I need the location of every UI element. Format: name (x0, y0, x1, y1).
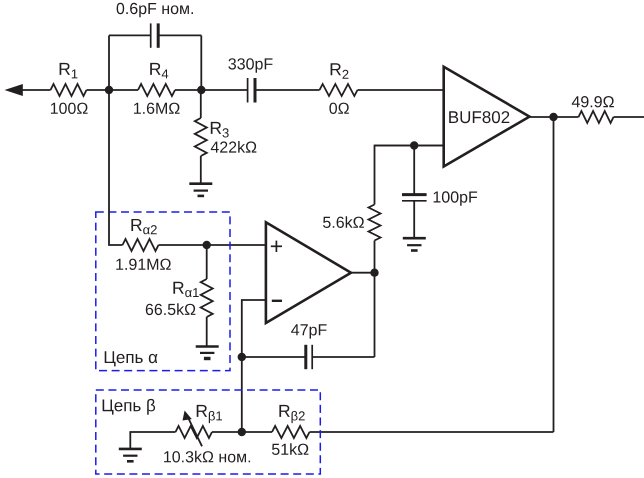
label Цепь α (105, 351, 158, 366)
resistor 49.9Ω (579, 111, 614, 123)
wire 5.6k riser (375, 146, 444, 205)
resistor 5.6kΩ (369, 205, 381, 241)
node G (alpha tap) (203, 241, 211, 249)
label R2 (331, 63, 349, 79)
wire Rα1 to ground (206, 317, 208, 347)
potentiometer Rβ1 (176, 411, 212, 447)
buffer U1 BUF802 (444, 67, 530, 167)
value 100Ω (51, 103, 88, 114)
value 51kΩ (272, 443, 308, 455)
capacitor 330pF (248, 78, 255, 103)
resistor R2 (320, 84, 358, 96)
wire -input to feedback column (242, 300, 266, 432)
wire op-amp output (351, 272, 375, 274)
wire 0.6pF branch left riser (108, 35, 110, 90)
wire feedback bottom (310, 431, 554, 433)
wire node B to R3 (200, 90, 202, 118)
value 10.3kΩ ном. (164, 451, 250, 463)
value 1.91MΩ (116, 259, 171, 270)
wire node G to Rα1 (206, 245, 208, 279)
capacitor 100pF (402, 195, 427, 201)
wire 330pF to R2 (255, 89, 320, 91)
resistor Rβ2 (272, 426, 310, 438)
capacitor 47pF (306, 345, 312, 369)
label 47pF (291, 324, 327, 338)
wire BUF802 output (530, 116, 579, 118)
value 66.5kΩ (146, 303, 196, 315)
wire 0.6pF branch top right (158, 34, 201, 36)
label Rα1 (173, 282, 198, 297)
value 422kΩ (211, 141, 257, 153)
value 5.6kΩ (323, 216, 364, 228)
wire 49.9Ω to edge (614, 116, 644, 118)
label Цепь β (103, 399, 156, 415)
wire feedback vertical (553, 117, 555, 432)
ground (100pF) (403, 238, 426, 250)
label BUF802 (449, 111, 509, 123)
wire 100pF to ground (413, 201, 415, 238)
wire Rα2 to node G (159, 244, 207, 246)
label R1 (60, 63, 78, 79)
wire Rβ1 to node H (212, 431, 242, 433)
wire beta ground corner (130, 432, 175, 449)
wire node F to 47pF (242, 356, 306, 358)
label Rβ1 (197, 405, 222, 423)
label R3 (211, 122, 229, 138)
node H (beta tap) (238, 428, 246, 436)
wire node E to 47pF (374, 273, 376, 357)
ground (Rα1) (196, 347, 219, 359)
resistor R1 (51, 84, 87, 96)
value 49.9Ω (572, 96, 614, 107)
pin − (inverting) (272, 300, 282, 302)
wire node A to R4 (109, 89, 138, 91)
wire 100pF stub (413, 146, 415, 195)
op-amp U2 (266, 222, 351, 323)
node F (47pF tap) (238, 353, 246, 361)
wire R4 to node B (175, 89, 201, 91)
dashed box Цепь α (96, 212, 230, 371)
label 330pF (228, 58, 272, 72)
value 1.6MΩ (134, 103, 180, 114)
arrow (signal to left) (5, 84, 51, 96)
node A (105, 86, 113, 94)
label Rβ2 (279, 405, 304, 423)
wire aux input rail (375, 145, 444, 147)
label Rα2 (131, 219, 156, 234)
wire R1 to node A (87, 89, 110, 91)
wire 47pF to node E column (312, 356, 374, 358)
ground (R3) (189, 184, 212, 196)
wire R2 to BUF802 (358, 89, 444, 91)
node C (output) (549, 113, 557, 121)
resistor R3 (195, 118, 207, 156)
pin + (non-inverting) (271, 241, 282, 252)
label R4 (150, 63, 168, 79)
label 0.6pF ном. (117, 3, 193, 17)
capacitor 0.6pF (151, 23, 159, 47)
wire 0.6pF branch right riser (200, 35, 202, 90)
resistor Rα2 (123, 239, 159, 251)
wire R3 to ground (200, 156, 202, 184)
label 100pF (434, 191, 478, 206)
wire +input rail (207, 244, 266, 246)
wire 5.6k to node E (374, 241, 376, 273)
wire node A to alpha network (109, 90, 123, 245)
wire node H to Rβ2 (242, 431, 272, 433)
resistor Rα1 (201, 279, 213, 317)
dashed box Цепь β (96, 390, 320, 474)
node B (197, 86, 205, 94)
value 0Ω (329, 103, 349, 114)
node D (100pF tap) (410, 141, 418, 149)
node E (op-amp output) (370, 269, 378, 277)
ground (beta) (119, 449, 142, 461)
wire 0.6pF branch top left (109, 34, 151, 36)
wire node B to 330pF (201, 89, 247, 91)
resistor R4 (138, 84, 175, 96)
